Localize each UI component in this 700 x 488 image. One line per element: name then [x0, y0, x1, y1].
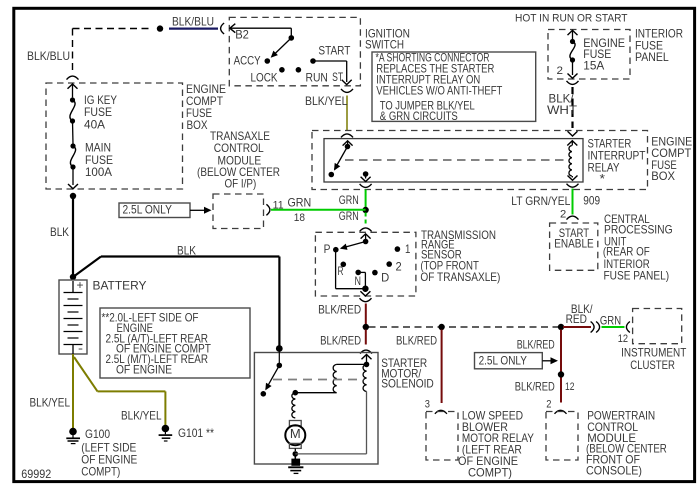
svg-text:MAIN: MAIN [85, 142, 111, 155]
svg-text:-: - [78, 341, 83, 355]
svg-text:BLK/RED: BLK/RED [515, 380, 555, 393]
svg-text:& GRN CIRCUITS: & GRN CIRCUITS [380, 110, 458, 123]
svg-text:CLUSTER: CLUSTER [630, 359, 675, 372]
svg-text:D: D [381, 272, 389, 285]
svg-text:PROCESSING: PROCESSING [604, 223, 673, 236]
svg-text:12: 12 [618, 333, 628, 345]
svg-text:SOLENOID: SOLENOID [381, 378, 434, 391]
svg-text:CONTROL: CONTROL [214, 142, 264, 155]
svg-text:PANEL: PANEL [635, 51, 669, 64]
svg-text:R: R [338, 265, 344, 278]
svg-text:ACCY: ACCY [234, 54, 261, 67]
svg-text:BLK: BLK [177, 245, 196, 258]
svg-text:BLK/YEL: BLK/YEL [30, 397, 71, 410]
svg-text:COMPT): COMPT) [81, 466, 120, 479]
svg-text:INSTRUMENT: INSTRUMENT [621, 346, 686, 359]
svg-text:BOX: BOX [187, 119, 208, 132]
svg-text:1: 1 [405, 243, 410, 256]
svg-text:G101 **: G101 ** [178, 427, 214, 440]
svg-text:BLK/RED: BLK/RED [318, 303, 361, 316]
svg-text:GRN: GRN [600, 314, 621, 327]
svg-text:BLK/YEL: BLK/YEL [121, 410, 162, 423]
svg-text:(REAR OF: (REAR OF [603, 246, 650, 259]
svg-text:B2: B2 [235, 29, 249, 42]
svg-text:COMPT): COMPT) [468, 467, 512, 480]
svg-text:GRN: GRN [339, 210, 359, 223]
svg-text:HOT IN RUN OR START: HOT IN RUN OR START [515, 13, 628, 25]
svg-text:SWITCH: SWITCH [365, 39, 404, 52]
svg-text:OF ENGINE: OF ENGINE [116, 363, 172, 376]
svg-text:40A: 40A [84, 119, 105, 132]
svg-text:RED: RED [566, 313, 587, 326]
svg-text:GRN: GRN [339, 194, 359, 207]
svg-text:100A: 100A [85, 166, 112, 179]
svg-text:LT GRN/YEL: LT GRN/YEL [511, 195, 570, 208]
svg-text:M: M [290, 426, 301, 441]
svg-text:G100: G100 [85, 428, 110, 441]
svg-text:11: 11 [273, 199, 284, 211]
svg-text:12: 12 [565, 381, 575, 393]
svg-text:CONSOLE): CONSOLE) [586, 465, 642, 478]
svg-text:VEHICLES W/O ANTI-THEFT: VEHICLES W/O ANTI-THEFT [376, 84, 502, 97]
svg-text:2: 2 [557, 65, 564, 77]
svg-text:GRN: GRN [288, 196, 312, 209]
svg-text:*: * [600, 171, 606, 186]
svg-text:ENABLE: ENABLE [554, 238, 594, 251]
svg-text:BOX: BOX [651, 170, 675, 183]
svg-text:BLK/BLU: BLK/BLU [172, 16, 214, 29]
svg-text:WHT: WHT [547, 104, 577, 117]
svg-text:2.5L ONLY: 2.5L ONLY [479, 354, 527, 367]
svg-text:909: 909 [583, 194, 600, 207]
svg-text:P: P [324, 243, 331, 256]
svg-text:BATTERY: BATTERY [93, 280, 147, 293]
svg-text:N: N [355, 275, 362, 288]
svg-text:BLK/RED: BLK/RED [396, 335, 437, 348]
svg-text:BLK/RED: BLK/RED [517, 338, 555, 351]
svg-text:2: 2 [560, 209, 566, 221]
svg-text:FUSE PANEL): FUSE PANEL) [604, 270, 670, 283]
svg-text:OF I/P): OF I/P) [225, 178, 257, 191]
svg-text:69992: 69992 [21, 468, 51, 481]
svg-text:15A: 15A [583, 59, 604, 72]
svg-text:2.5L ONLY: 2.5L ONLY [123, 203, 173, 216]
svg-text:3: 3 [425, 399, 430, 411]
svg-text:18: 18 [294, 212, 305, 224]
svg-text:BLK: BLK [50, 226, 69, 239]
svg-text:START: START [318, 44, 350, 57]
svg-text:OF TRANSAXLE): OF TRANSAXLE) [420, 271, 500, 284]
svg-text:BLK/BLU: BLK/BLU [27, 50, 70, 63]
svg-text:+: + [77, 278, 84, 292]
svg-text:LOCK: LOCK [251, 72, 278, 85]
svg-text:BLK/RED: BLK/RED [320, 335, 361, 348]
svg-text:2: 2 [546, 399, 551, 411]
svg-text:RUN: RUN [306, 72, 328, 85]
svg-text:FUSE: FUSE [84, 106, 112, 119]
svg-text:ST: ST [332, 71, 343, 84]
svg-text:2: 2 [396, 261, 402, 274]
svg-text:BLK/YEL: BLK/YEL [305, 95, 348, 108]
